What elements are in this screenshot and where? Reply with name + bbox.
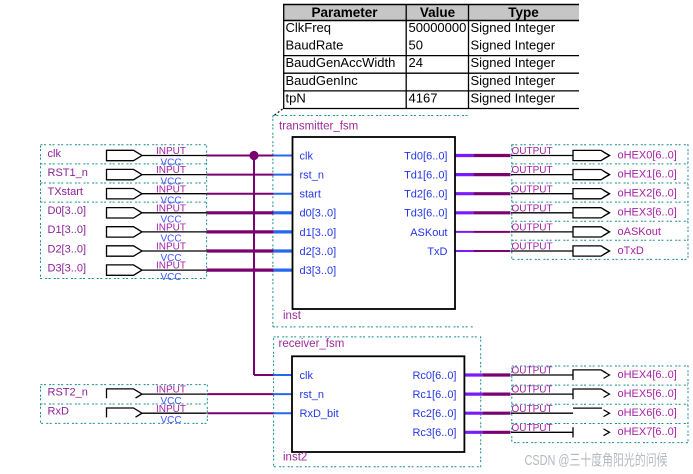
- wire net RST2_n to receiver rst_n: [207, 393, 292, 395]
- input pin RST1_n: [48, 165, 207, 187]
- svg-text:TxD: TxD: [427, 246, 447, 258]
- wire net RxD to receiver RxD_bit: [207, 412, 292, 414]
- svg-text:INPUT: INPUT: [156, 385, 186, 396]
- svg-text:Signed Integer: Signed Integer: [471, 38, 556, 53]
- svg-text:rst_n: rst_n: [300, 170, 324, 182]
- svg-text:BaudGenInc: BaudGenInc: [286, 73, 359, 88]
- svg-text:VCC: VCC: [160, 272, 181, 283]
- svg-text:INPUT: INPUT: [156, 203, 186, 214]
- svg-text:BaudGenAccWidth: BaudGenAccWidth: [286, 55, 396, 70]
- svg-text:24: 24: [409, 55, 423, 70]
- svg-text:d2[3..0]: d2[3..0]: [300, 246, 337, 258]
- svg-text:Signed Integer: Signed Integer: [471, 73, 556, 88]
- svg-text:Td3[6..0]: Td3[6..0]: [404, 208, 447, 220]
- bus wire net Rc0[6..0] to output pin: [464, 373, 510, 376]
- output pin oHEX4[6..0]: [511, 366, 677, 381]
- wire net clk: pin to junction: [207, 155, 254, 157]
- svg-text:D1[3..0]: D1[3..0]: [48, 224, 87, 236]
- output pin oTxD: [511, 242, 644, 257]
- svg-text:OUTPUT: OUTPUT: [512, 242, 553, 253]
- svg-text:oHEX3[6..0]: oHEX3[6..0]: [618, 207, 677, 219]
- output pin oHEX7[6..0]: [511, 423, 677, 438]
- output pin oHEX5[6..0]: [511, 385, 677, 400]
- bus wire net D2[3..0] to transmitter: [207, 249, 293, 252]
- svg-text:ClkFreq: ClkFreq: [286, 20, 332, 35]
- output pin oHEX2[6..0]: [511, 184, 677, 199]
- selection box top-left input pins: [41, 145, 207, 279]
- svg-text:RST1_n: RST1_n: [48, 167, 88, 179]
- svg-text:CSDN @三十度角阳光的问候: CSDN @三十度角阳光的问候: [525, 452, 668, 469]
- svg-text:d1[3..0]: d1[3..0]: [300, 227, 337, 239]
- svg-text:OUTPUT: OUTPUT: [512, 223, 553, 234]
- input pin D1[3..0]: [48, 223, 207, 245]
- selection box bottom-left input pins: [41, 385, 208, 424]
- svg-text:INPUT: INPUT: [156, 146, 186, 157]
- selection box receiver block: [274, 337, 481, 467]
- svg-text:Td0[6..0]: Td0[6..0]: [404, 150, 447, 162]
- svg-text:clk: clk: [48, 148, 62, 160]
- svg-text:RxD: RxD: [48, 406, 69, 418]
- svg-text:D0[3..0]: D0[3..0]: [48, 205, 87, 217]
- svg-text:inst2: inst2: [283, 452, 307, 464]
- wire net ASKout to output pin: [455, 231, 511, 233]
- svg-text:RxD_bit: RxD_bit: [300, 408, 339, 420]
- svg-text:Td1[6..0]: Td1[6..0]: [404, 170, 447, 182]
- input pin D0[3..0]: [48, 203, 207, 225]
- bus wire net Td3[6..0] to output pin: [455, 211, 511, 214]
- svg-text:oHEX6[6..0]: oHEX6[6..0]: [618, 407, 677, 419]
- svg-text:TXstart: TXstart: [48, 186, 83, 198]
- svg-text:oHEX2[6..0]: oHEX2[6..0]: [618, 188, 677, 200]
- svg-text:d3[3..0]: d3[3..0]: [300, 265, 337, 277]
- bus wire net Rc2[6..0] to output pin: [464, 412, 510, 415]
- svg-text:OUTPUT: OUTPUT: [512, 404, 553, 415]
- wire net TXstart to transmitter: [207, 193, 293, 195]
- svg-text:Signed Integer: Signed Integer: [471, 20, 556, 35]
- svg-text:Signed Integer: Signed Integer: [471, 55, 556, 70]
- svg-text:Rc0[6..0]: Rc0[6..0]: [412, 370, 456, 382]
- output pin oHEX1[6..0]: [511, 165, 677, 180]
- svg-text:oHEX5[6..0]: oHEX5[6..0]: [618, 388, 677, 400]
- wire net RST1_n to transmitter: [207, 174, 293, 176]
- svg-text:INPUT: INPUT: [156, 242, 186, 253]
- link line table to transmitter selection: [274, 109, 283, 116]
- svg-text:INPUT: INPUT: [156, 184, 186, 195]
- svg-text:oHEX0[6..0]: oHEX0[6..0]: [618, 149, 677, 161]
- svg-text:D3[3..0]: D3[3..0]: [48, 262, 87, 274]
- bus wire net Td0[6..0] to output pin: [455, 154, 511, 157]
- bus wire net Td2[6..0] to output pin: [455, 192, 511, 195]
- input pin D2[3..0]: [48, 242, 207, 264]
- svg-text:oHEX7[6..0]: oHEX7[6..0]: [618, 426, 677, 438]
- svg-text:receiver_fsm: receiver_fsm: [279, 338, 345, 350]
- svg-text:OUTPUT: OUTPUT: [512, 203, 553, 214]
- svg-text:Rc1[6..0]: Rc1[6..0]: [412, 389, 456, 401]
- svg-text:OUTPUT: OUTPUT: [512, 184, 553, 195]
- bus wire net D0[3..0] to transmitter: [207, 211, 293, 214]
- wire net clk: vertical down to receiver clk: [254, 156, 292, 376]
- wire net clk: junction to transmitter: [254, 155, 293, 157]
- svg-text:50: 50: [409, 38, 423, 53]
- svg-text:50000000: 50000000: [409, 20, 467, 35]
- output pin oHEX6[6..0]: [511, 404, 677, 419]
- svg-text:rst_n: rst_n: [300, 389, 324, 401]
- selection box top-right output pins: [512, 145, 688, 260]
- svg-text:Value: Value: [420, 5, 456, 20]
- svg-text:VCC: VCC: [160, 415, 181, 426]
- svg-text:tpN: tpN: [286, 91, 306, 106]
- svg-text:oASKout: oASKout: [618, 226, 661, 238]
- svg-text:INPUT: INPUT: [156, 223, 186, 234]
- svg-text:oHEX4[6..0]: oHEX4[6..0]: [618, 369, 677, 381]
- svg-text:Rc2[6..0]: Rc2[6..0]: [412, 408, 456, 420]
- output pin oASKout: [511, 223, 661, 238]
- svg-text:inst: inst: [283, 310, 302, 322]
- svg-text:OUTPUT: OUTPUT: [512, 366, 553, 377]
- bus wire net D1[3..0] to transmitter: [207, 230, 293, 233]
- svg-text:start: start: [300, 189, 321, 201]
- svg-text:INPUT: INPUT: [156, 165, 186, 176]
- svg-text:4167: 4167: [409, 91, 438, 106]
- svg-text:transmitter_fsm: transmitter_fsm: [279, 121, 358, 133]
- bus wire net Td1[6..0] to output pin: [455, 173, 511, 176]
- input pin TXstart: [48, 184, 207, 206]
- svg-text:clk: clk: [300, 150, 314, 162]
- block U1 transmitter_fsm: [293, 137, 456, 309]
- bus wire net D3[3..0] to transmitter: [207, 269, 293, 272]
- svg-text:d0[3..0]: d0[3..0]: [300, 208, 337, 220]
- input pin D3[3..0]: [48, 261, 207, 283]
- input pin clk: [48, 146, 207, 168]
- input pin RST2_n: [48, 385, 207, 407]
- output pin oHEX0[6..0]: [511, 146, 677, 161]
- parameter table: [283, 5, 579, 109]
- svg-text:OUTPUT: OUTPUT: [512, 423, 553, 434]
- svg-text:INPUT: INPUT: [156, 404, 186, 415]
- block U2 receiver_fsm: [292, 356, 464, 452]
- svg-text:Td2[6..0]: Td2[6..0]: [404, 189, 447, 201]
- junction dot net clk: [249, 151, 258, 160]
- svg-text:oTxD: oTxD: [618, 245, 644, 257]
- svg-text:BaudRate: BaudRate: [286, 38, 344, 53]
- svg-text:Type: Type: [508, 5, 539, 20]
- svg-text:Rc3[6..0]: Rc3[6..0]: [412, 427, 456, 439]
- svg-text:Parameter: Parameter: [311, 5, 378, 20]
- svg-text:RST2_n: RST2_n: [48, 386, 88, 398]
- selection box transmitter block: [273, 116, 474, 327]
- wire net TxD to output pin: [455, 250, 511, 252]
- svg-text:clk: clk: [300, 370, 314, 382]
- svg-text:oHEX1[6..0]: oHEX1[6..0]: [618, 169, 677, 181]
- svg-text:INPUT: INPUT: [156, 261, 186, 272]
- svg-text:OUTPUT: OUTPUT: [512, 146, 553, 157]
- selection box bottom-right output pins: [512, 366, 688, 443]
- input pin RxD: [48, 404, 207, 426]
- svg-text:OUTPUT: OUTPUT: [512, 385, 553, 396]
- svg-text:Signed Integer: Signed Integer: [471, 91, 556, 106]
- output pin oHEX3[6..0]: [511, 203, 677, 218]
- svg-text:D2[3..0]: D2[3..0]: [48, 243, 87, 255]
- svg-text:OUTPUT: OUTPUT: [512, 165, 553, 176]
- svg-text:ASKout: ASKout: [410, 227, 447, 239]
- bus wire net Rc1[6..0] to output pin: [464, 393, 510, 396]
- bus wire net Rc3[6..0] to output pin: [464, 431, 510, 434]
